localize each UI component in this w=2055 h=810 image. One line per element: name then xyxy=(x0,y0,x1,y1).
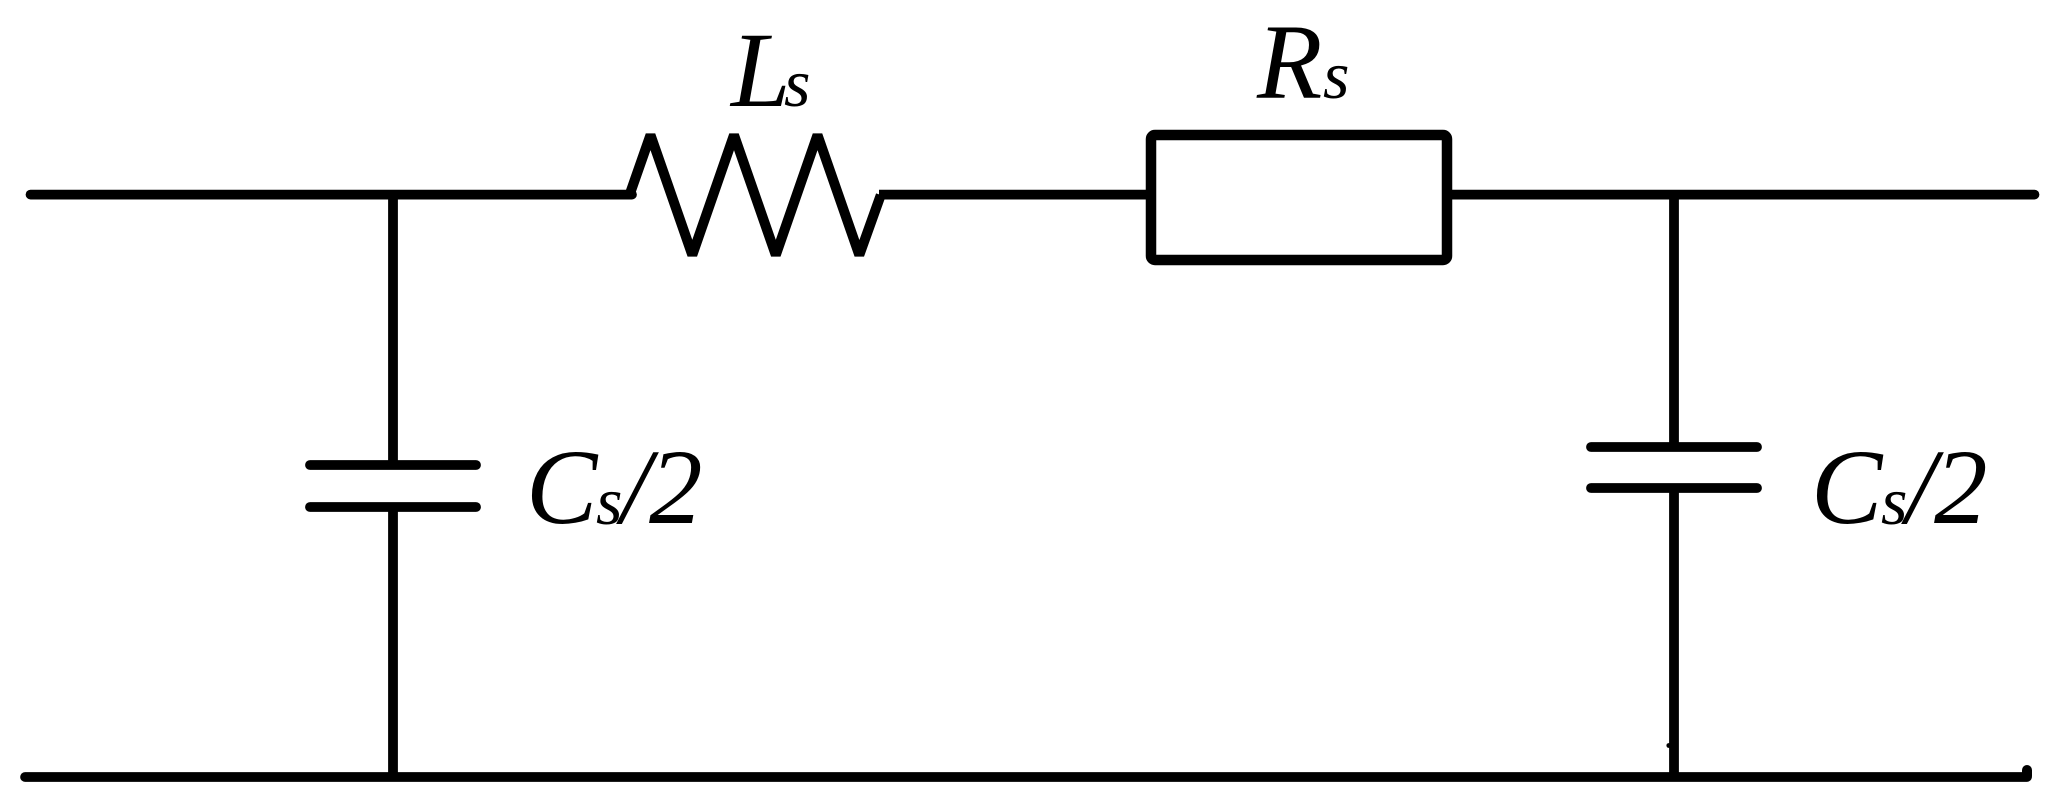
svg-text:2: 2 xyxy=(1934,429,1988,547)
svg-text:s: s xyxy=(596,463,622,539)
resistor Rs (box symbol) xyxy=(1151,135,1447,260)
label Rs xyxy=(1256,4,1349,122)
svg-text:C: C xyxy=(1811,429,1884,547)
wire: top rail left segment xyxy=(31,190,633,200)
wire: right shunt branch upper xyxy=(1669,196,1679,443)
wire: bottom rail xyxy=(25,772,2027,782)
wire: right shunt branch lower xyxy=(1666,492,1674,776)
svg-text:R: R xyxy=(1256,4,1322,122)
svg-text:C: C xyxy=(526,429,599,547)
label Cs/2 left xyxy=(526,429,703,547)
inductor Ls (zigzag symbol) xyxy=(630,135,881,255)
capacitor Cs/2 left: bottom plate xyxy=(310,502,476,512)
svg-text:s: s xyxy=(1323,37,1349,113)
svg-text:s: s xyxy=(1881,463,1907,539)
capacitor Cs/2 left: top plate xyxy=(310,460,476,470)
wire: left shunt branch upper xyxy=(388,196,398,461)
svg-text:s: s xyxy=(784,45,810,121)
wire: bottom rail right end upturn xyxy=(2022,770,2032,776)
wire: top rail middle segment (between Ls and Rs) xyxy=(879,190,1148,200)
svg-text:2: 2 xyxy=(649,429,703,547)
wire: left shunt branch lower xyxy=(388,511,398,776)
label Ls xyxy=(729,12,810,130)
label Cs/2 right xyxy=(1811,429,1988,547)
svg-text:L: L xyxy=(729,12,791,130)
capacitor Cs/2 right: bottom plate xyxy=(1591,483,1757,493)
capacitor Cs/2 right: top plate xyxy=(1591,442,1757,452)
wire: top rail right segment xyxy=(1450,190,2035,200)
